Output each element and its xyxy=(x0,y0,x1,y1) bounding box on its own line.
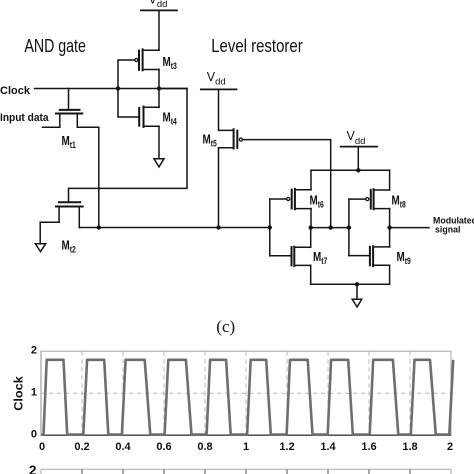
svg-text:Mt9: Mt9 xyxy=(397,249,411,266)
transistor Mt5 (PMOS, gate on right) xyxy=(219,129,243,148)
svg-text:AND gate: AND gate xyxy=(24,36,86,56)
svg-text:Clock: Clock xyxy=(0,85,31,97)
wire AND output node line xyxy=(99,227,270,229)
wire Mt8 drain down to output xyxy=(389,209,391,228)
wire Vdd1 to Mt3 source xyxy=(158,10,160,50)
chart y tick labels xyxy=(29,344,37,474)
wire Mt8 source up to Vdd rail xyxy=(389,170,391,190)
node inverter output junction xyxy=(157,86,161,90)
svg-text:Vdd: Vdd xyxy=(207,70,226,88)
ground below Mt4 xyxy=(154,159,164,167)
svg-text:2: 2 xyxy=(31,344,37,356)
chart plot box xyxy=(41,351,451,474)
transistor Mt4 (NMOS) xyxy=(139,107,159,127)
wire Mt5 drain down to node xyxy=(218,148,220,228)
svg-text:Mt5: Mt5 xyxy=(203,132,217,149)
node ground rail junction xyxy=(355,282,359,286)
svg-text:Mt3: Mt3 xyxy=(163,54,177,71)
svg-text:0.2: 0.2 xyxy=(74,441,89,453)
wire clock to Mt4 gate xyxy=(118,89,139,118)
ground below output stage xyxy=(352,299,362,307)
transistor Mt7 (NMOS) xyxy=(292,247,311,266)
chart gridlines xyxy=(41,351,451,435)
node Vdd rail junction xyxy=(356,168,360,172)
node Mt6 Mt7 gate junction xyxy=(268,225,272,229)
wire Mt6 gate lead xyxy=(270,198,286,200)
transistor Mt9 (NMOS) xyxy=(370,246,390,266)
node Mt1 drain junction xyxy=(97,225,101,229)
svg-text:Mt1: Mt1 xyxy=(62,133,76,150)
power Vdd2 symbol xyxy=(201,70,237,90)
wire Mt9 gate lead xyxy=(349,255,370,257)
wire ground rail to ground symbol xyxy=(356,284,358,299)
wire Mt7 gate lead xyxy=(270,255,292,257)
svg-text:Mt2: Mt2 xyxy=(62,238,76,255)
wire modulated signal output xyxy=(390,227,429,229)
node Mt5 drain junction xyxy=(216,225,220,229)
label Modulated signal xyxy=(433,216,474,235)
wire Mt2 drain to output node line xyxy=(79,227,99,229)
svg-text:1: 1 xyxy=(243,441,249,453)
svg-text:1: 1 xyxy=(31,386,37,398)
wire inverter1 output segment xyxy=(311,227,349,229)
wire Mt1 drain to output node xyxy=(77,127,99,227)
wire Mt6 source up to Vdd rail xyxy=(310,170,312,190)
wire Mt8 gate riser xyxy=(348,199,350,256)
wire Mt6 Mt7 gate riser xyxy=(269,199,271,256)
wire Mt9 source down to ground rail xyxy=(389,265,391,284)
wire clock to Mt1 gate xyxy=(68,89,70,110)
wire Mt4 drain up to node xyxy=(158,89,160,108)
wire inverter output feedback to Mt2 gate xyxy=(69,89,188,202)
wire Mt9 drain up to output node xyxy=(389,228,391,247)
svg-text:Level restorer: Level restorer xyxy=(211,36,303,56)
svg-text:Mt8: Mt8 xyxy=(392,193,406,210)
svg-text:2: 2 xyxy=(29,462,37,474)
svg-text:Mt7: Mt7 xyxy=(313,249,327,266)
svg-text:(c): (c) xyxy=(216,317,235,336)
wire Mt3 gate to clock line xyxy=(118,60,134,89)
svg-text:Vdd: Vdd xyxy=(149,0,168,10)
svg-text:1.4: 1.4 xyxy=(320,441,336,453)
chart x tick labels xyxy=(39,441,453,453)
node clock-Mt3gate junction xyxy=(116,86,120,90)
svg-text:Mt6: Mt6 xyxy=(310,193,324,210)
wire Mt3 drain down to node xyxy=(158,70,160,89)
transistor Mt2 (NMOS, gate on top) xyxy=(56,202,83,227)
svg-text:Input data: Input data xyxy=(0,112,49,124)
wire Vdd2 to Mt5 source xyxy=(219,89,234,130)
svg-text:signal: signal xyxy=(435,225,460,235)
svg-text:0: 0 xyxy=(39,441,45,453)
wire input data to Mt1 source xyxy=(43,126,60,128)
svg-text:1.2: 1.2 xyxy=(279,441,294,453)
svg-text:0.6: 0.6 xyxy=(156,441,171,453)
chart clock trace xyxy=(41,360,453,435)
svg-text:0.8: 0.8 xyxy=(197,441,212,453)
transistor Mt1 (NMOS, gate on top) xyxy=(56,110,82,127)
node modulated output junction xyxy=(387,225,391,229)
wire Mt7 drain up to inverter1 output xyxy=(310,228,312,248)
wire Mt7 source down to ground rail xyxy=(310,265,312,284)
wire ground rail xyxy=(311,283,390,285)
wire clock line xyxy=(35,88,188,90)
wire Vdd rail xyxy=(311,169,390,171)
svg-text:2: 2 xyxy=(447,441,453,453)
svg-text:Vdd: Vdd xyxy=(347,129,366,147)
wire Mt2 source to ground xyxy=(40,222,59,244)
chart axes xyxy=(41,351,451,435)
wire Mt8 gate lead xyxy=(349,198,365,200)
wire Mt6 drain down to inverter1 output xyxy=(310,209,312,228)
transistor Mt3 (PMOS) xyxy=(135,49,159,70)
wire Mt4 source to ground xyxy=(158,126,160,158)
node inverter1 output drain junction xyxy=(309,225,313,229)
power Vdd1 symbol xyxy=(141,0,177,10)
chart axis ticks second plot xyxy=(82,469,410,474)
svg-text:0: 0 xyxy=(31,428,37,440)
node feedback tap junction xyxy=(329,225,333,229)
wire Mt5 gate feedback from inverter1 output xyxy=(243,140,331,228)
wire Vdd3 to rail xyxy=(357,147,359,171)
svg-text:1.8: 1.8 xyxy=(402,441,417,453)
svg-text:0.4: 0.4 xyxy=(115,441,131,453)
power Vdd3 symbol xyxy=(341,129,378,147)
node Mt8 Mt9 gate junction xyxy=(347,225,351,229)
transistor Mt6 (PMOS) xyxy=(287,189,311,209)
transistor Mt8 (PMOS) xyxy=(366,189,390,209)
svg-text:1.6: 1.6 xyxy=(361,441,376,453)
svg-text:Mt4: Mt4 xyxy=(163,110,177,127)
svg-text:Clock: Clock xyxy=(13,376,25,411)
ground below Mt2 xyxy=(35,244,45,252)
